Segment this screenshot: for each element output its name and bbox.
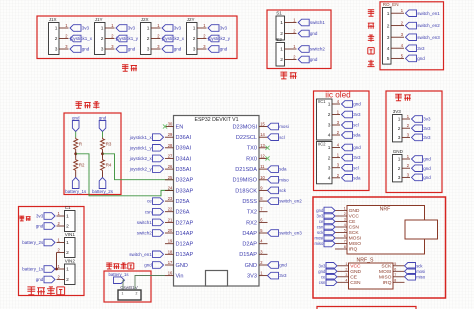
connector RO_EN [383,8,392,65]
pin 1 of 3V3 [402,118,410,120]
group box (cut off at bottom) [317,307,416,309]
junction [55,268,58,271]
svg-text:mosi: mosi [416,269,425,274]
svg-text:EN: EN [176,124,184,130]
svg-text:1: 1 [101,26,104,32]
svg-text:1: 1 [122,292,124,296]
svg-text:3V3: 3V3 [247,274,257,280]
svg-text:4: 4 [345,279,347,283]
pin 2 of C1 [57,225,65,227]
connector J2X [141,23,152,55]
svg-text:1: 1 [280,47,283,53]
no-connect X [265,156,269,160]
svg-text:1: 1 [147,26,150,32]
svg-text:joystick1_x: joystick1_x [129,135,153,140]
svg-text:gnd: gnd [99,115,107,120]
label 分压器 (voltage divider) [76,102,82,108]
svg-text:joystick2_x: joystick2_x [129,156,153,161]
svg-text:1: 1 [193,26,196,32]
pin 12 RX0 of U1 [259,157,268,159]
svg-text:D5SS: D5SS [242,199,257,205]
svg-text:R3: R3 [106,142,112,147]
svg-text:VIN2: VIN2 [65,258,76,263]
svg-text:switch_en2: switch_en2 [417,23,440,28]
pin 13 TX0 of U1 [259,147,268,149]
svg-text:battery_2s: battery_2s [22,240,44,245]
pin 3 D15AP of U1 [259,253,268,255]
pin 1 GND of NRF [335,210,347,212]
svg-text:8: 8 [344,245,346,249]
pin 5 of RO_EN [391,57,404,59]
svg-text:gnd: gnd [353,145,361,150]
pin 8 IRQ of NRF_S [393,281,405,283]
mcu module U1 ESP32 DEVKIT V1 [174,116,260,287]
svg-text:4: 4 [344,223,346,227]
pin 1 of IIC2 [332,147,340,149]
wire [102,132,104,138]
no-connect X [265,146,269,150]
svg-text:3: 3 [193,47,196,53]
svg-text:1: 1 [328,145,331,151]
svg-text:TX0: TX0 [247,146,257,152]
pin 7 TX2 of U1 [259,211,268,213]
svg-text:gnd: gnd [174,47,182,52]
group box joysticks [37,16,237,59]
svg-text:csn: csn [319,280,326,285]
pin 14 D22SCL of U1 [259,136,268,138]
svg-text:14: 14 [260,132,265,137]
svg-text:gnd: gnd [423,175,431,180]
svg-text:3v3: 3v3 [279,273,287,278]
svg-text:gnd: gnd [417,56,425,61]
svg-text:CE: CE [350,275,358,281]
pin 2 of J2Y [197,38,207,40]
pin 3 of IIC2 [332,167,340,169]
svg-text:20: 20 [168,228,173,233]
svg-text:gnd: gnd [353,102,361,107]
group box extras [386,91,442,193]
pin 29 D36AI of U1 [165,136,174,138]
pin 1 of J1X [59,27,69,29]
svg-text:NRF: NRF [380,206,391,212]
svg-text:SCK: SCK [381,264,392,270]
svg-text:CSN: CSN [349,225,360,231]
pin 1 VCC of NRF_S [337,265,349,267]
pin 5 SCK of NRF [335,232,347,234]
pin 21 D27AP of U1 [165,221,174,223]
pin 1 of RO_EN [391,12,404,14]
svg-text:1: 1 [345,262,347,266]
pin 2 GND of NRF_S [337,270,349,272]
svg-text:3v3: 3v3 [417,46,425,51]
svg-text:3: 3 [55,47,58,53]
pin 4 of RO_EN [391,47,404,49]
svg-text:1: 1 [387,11,390,17]
wire [75,172,77,178]
pin 26 D35AI of U1 [165,168,174,170]
svg-text:S1: S1 [276,10,282,15]
connector J2Y [187,23,198,55]
group box switches [267,10,331,69]
svg-text:18: 18 [168,249,173,254]
svg-text:switch_en1: switch_en1 [417,11,440,16]
svg-text:30: 30 [168,122,173,127]
pin 2 of GND [402,167,410,169]
group box voltage divider [64,113,121,195]
svg-text:scl: scl [279,135,285,140]
resistor R [74,138,78,151]
pin 1 of IIC1 [332,103,340,105]
antenna block of NRF [405,220,438,239]
svg-text:GND: GND [176,263,188,269]
wire [75,132,77,138]
pin 4 CSN of NRF [335,226,347,228]
svg-text:3: 3 [398,135,401,141]
svg-text:TX2: TX2 [247,210,257,216]
svg-text:1: 1 [344,207,346,211]
svg-text:RO_EN: RO_EN [383,2,399,7]
svg-text:2: 2 [101,36,104,42]
pin 3 of 3V3 [402,136,410,138]
svg-text:J1Y: J1Y [95,17,103,22]
svg-text:scl: scl [353,123,359,128]
pin 2 of 3V3 [402,127,410,129]
svg-text:D4AP: D4AP [242,231,257,237]
svg-text:D18SCK: D18SCK [235,188,257,194]
svg-text:5: 5 [387,56,390,62]
svg-text:VCC: VCC [349,214,360,220]
svg-text:D2AP: D2AP [242,242,257,248]
label 开关 (switch) [280,72,287,79]
svg-text:3: 3 [345,273,347,277]
svg-text:miso: miso [279,177,289,182]
connector IIC1 [317,99,333,140]
pin 1 of J2Y [197,27,207,29]
svg-text:gnd: gnd [36,224,44,229]
svg-text:3: 3 [398,175,401,181]
pin 2 of VIN1 [57,252,65,254]
pin 6 MOSI of NRF [335,237,347,239]
svg-text:gnd: gnd [310,57,318,62]
svg-text:sda: sda [279,167,287,172]
pin 18 D13AP of U1 [165,253,174,255]
svg-text:D35AI: D35AI [176,167,192,173]
svg-text:joystick1_y: joystick1_y [129,145,153,150]
label 多的 (extras) [395,94,402,101]
pin 3 of IIC1 [332,124,340,126]
connector VIN1 [65,238,76,258]
pin 2 of S1 [285,33,297,35]
svg-text:19: 19 [168,239,173,244]
pin 2 of S2 [285,59,297,61]
svg-text:IIC2: IIC2 [318,142,326,147]
svg-text:3v3: 3v3 [423,117,431,122]
svg-text:D34AI: D34AI [176,156,192,162]
group box NRF [313,197,446,298]
svg-text:2: 2 [398,166,401,172]
svg-text:3V3: 3V3 [393,109,402,114]
svg-text:1: 1 [328,102,331,108]
pin 3 CE of NRF [335,221,347,223]
junction [101,152,104,155]
pin 3 of J1X [59,48,69,50]
svg-text:SCK: SCK [349,230,360,236]
pin 4 D2AP of U1 [259,243,268,245]
connector J1Y [95,23,106,55]
pin 2 of IIC2 [332,157,340,159]
wire [102,172,104,178]
svg-text:3v3: 3v3 [423,135,431,140]
svg-text:1: 1 [55,26,58,32]
pin 30 EN of U1 [165,126,174,128]
svg-text:IRQ: IRQ [349,247,358,253]
label 电源开关 (power switch) [106,263,112,269]
connector J1X [49,23,60,55]
svg-text:D14AP: D14AP [176,231,194,237]
pin 17 GND of U1 [165,264,174,266]
svg-text:3: 3 [147,47,150,53]
pin 8 D5SS of U1 [259,200,268,202]
pin 23 D25A of U1 [165,200,174,202]
svg-text:gnd: gnd [144,263,152,268]
svg-text:RX0: RX0 [246,156,257,162]
svg-text:csn: csn [145,209,153,214]
svg-text:scl: scl [353,165,359,170]
svg-text:RX2: RX2 [246,220,257,226]
pin 8 IRQ of NRF [335,248,347,250]
svg-text:MISO: MISO [379,275,392,281]
svg-text:3v3: 3v3 [128,26,136,31]
wire switch to Vin [135,276,165,291]
pin 22 D26A of U1 [165,211,174,213]
svg-text:D27AP: D27AP [176,220,194,226]
svg-text:NRF_S: NRF_S [356,257,374,263]
connector VIN2 [65,264,76,285]
svg-text:VIN1: VIN1 [65,232,76,237]
svg-text:8: 8 [394,279,396,283]
svg-text:sda: sda [353,175,361,180]
pin 3 of RO_EN [391,36,404,38]
pin 24 D33AP of U1 [165,189,174,191]
svg-text:ce: ce [319,219,324,224]
svg-text:MOSI: MOSI [349,236,362,242]
svg-text:26: 26 [168,164,173,169]
svg-text:CE: CE [349,219,357,225]
svg-text:ESP32 DEVKIT V1: ESP32 DEVKIT V1 [194,117,238,123]
connector 3V3 [393,115,403,142]
svg-text:3v3: 3v3 [317,214,324,219]
svg-text:10: 10 [260,175,265,180]
svg-text:3v3: 3v3 [353,155,361,160]
pin 25 D32AP of U1 [165,179,174,181]
svg-text:gnd: gnd [318,269,326,274]
svg-text:D26A: D26A [176,210,190,216]
svg-text:miso: miso [314,241,324,246]
svg-text:D25A: D25A [176,199,190,205]
label 摇杆 (joystick) [122,65,128,71]
svg-text:22: 22 [168,207,173,212]
pin 1 of VIN1 [57,242,65,244]
connector S2 [276,43,285,67]
pin 2 of J1X [59,38,69,40]
svg-text:D15AP: D15AP [239,252,257,258]
svg-text:2: 2 [55,36,58,42]
svg-text:VCC: VCC [350,264,361,270]
svg-text:MISO: MISO [349,241,362,247]
resistor R4 [101,159,105,172]
svg-text:GND: GND [350,269,361,275]
svg-text:11: 11 [260,164,265,169]
svg-text:gnd: gnd [220,47,228,52]
svg-text:3: 3 [387,35,390,41]
svg-text:switch_en3: switch_en3 [279,231,302,236]
svg-text:R4: R4 [106,163,112,168]
pin 2 GND of U1 [259,264,268,266]
pin 4 of IIC2 [332,177,340,179]
pin 2 of RO_EN [391,25,404,27]
svg-text:D22SCL: D22SCL [236,135,257,141]
svg-text:C1: C1 [65,205,71,210]
svg-text:GND: GND [349,208,360,214]
svg-text:2: 2 [136,292,138,296]
svg-text:gnd: gnd [72,115,80,120]
pin 3 CE of NRF_S [337,276,349,278]
svg-text:16: 16 [168,271,173,276]
pin 3 of J1Y [105,48,115,50]
svg-text:joystick2_y: joystick2_y [129,167,153,172]
group box iic oled [314,91,370,191]
svg-text:2: 2 [66,277,69,283]
svg-text:3: 3 [101,47,104,53]
svg-text:switch_en1: switch_en1 [129,252,152,257]
svg-text:1: 1 [398,117,401,123]
wire [102,151,104,159]
pin 28 D39AI of U1 [165,147,174,149]
svg-text:CSN: CSN [350,280,361,286]
svg-text:4: 4 [328,176,331,182]
svg-text:Vin: Vin [176,274,184,280]
svg-text:gnd: gnd [128,47,136,52]
svg-text:3v3: 3v3 [353,112,361,117]
svg-text:D21SDA: D21SDA [235,167,257,173]
pin 1 of J2X [151,27,161,29]
svg-text:27: 27 [168,153,173,158]
svg-text:sda: sda [353,133,361,138]
svg-text:gnd: gnd [310,31,318,36]
group box power switch [104,271,151,302]
svg-text:GND: GND [393,149,404,154]
svg-text:gnd: gnd [279,263,287,268]
svg-text:ce: ce [321,274,326,279]
pin 1 of J1Y [105,27,115,29]
svg-text:7: 7 [344,240,346,244]
svg-text:6: 6 [344,234,346,238]
svg-text:D23MOSI: D23MOSI [232,124,257,130]
svg-text:7: 7 [394,273,396,277]
pin 2 of IIC1 [332,114,340,116]
pin 1 of C1 [57,215,65,217]
pin 20 D14AP of U1 [165,232,174,234]
pin 2 VCC of NRF [335,215,347,217]
svg-text:miso: miso [416,274,426,279]
wire battery_2s link [56,253,58,270]
pin 5 SCK of NRF_S [393,265,405,267]
svg-text:D36AI: D36AI [176,135,192,141]
svg-text:ce: ce [147,199,152,204]
svg-text:2: 2 [328,112,331,118]
connector GND [393,155,403,182]
svg-text:IRQ: IRQ [383,280,392,286]
svg-text:2: 2 [328,155,331,161]
pin 9 D18SCK of U1 [259,189,268,191]
svg-text:5: 5 [344,229,346,233]
pin 16 Vin of U1 [165,275,174,277]
svg-text:3v3: 3v3 [36,214,44,219]
svg-text:1: 1 [66,240,69,246]
svg-text:21: 21 [168,217,173,222]
svg-text:MOSI: MOSI [379,269,392,275]
svg-text:switch1: switch1 [137,220,153,225]
svg-text:2: 2 [345,268,347,272]
pin 6 MOSI of NRF_S [393,270,405,272]
svg-text:2: 2 [147,36,150,42]
resistor R3 [101,138,105,151]
wire divider2 to D32AP [103,154,174,180]
pin 7 MISO of NRF_S [393,276,405,278]
pin 1 of GND [402,158,410,160]
svg-text:2: 2 [193,36,196,42]
connector IIC2 [317,142,333,184]
label 电池 (battery) [19,216,24,221]
pin 5 D4AP of U1 [259,232,268,234]
pin 2 of J1Y [105,38,115,40]
pin 10 D19MISO of U1 [259,179,268,181]
svg-text:sck: sck [279,188,287,193]
svg-text:GND: GND [245,263,257,269]
no-connect X [163,124,167,128]
svg-text:23: 23 [168,196,173,201]
svg-text:6: 6 [394,268,396,272]
wire [75,151,77,159]
label 旋转编码器 (rotary encoder) [368,10,374,16]
svg-text:28: 28 [168,143,173,148]
svg-text:2: 2 [66,224,69,230]
pin 19 D12AP of U1 [165,243,174,245]
svg-text:S2: S2 [276,37,282,42]
svg-text:24: 24 [168,185,173,190]
svg-text:3: 3 [328,123,331,129]
svg-text:IIC1: IIC1 [318,99,326,104]
svg-text:R: R [79,142,82,147]
svg-text:D12AP: D12AP [176,242,194,248]
connector C1 [65,211,76,232]
resistor R2 [74,159,78,172]
svg-text:gnd: gnd [316,208,324,213]
wire divider1 to D33AP [76,154,174,196]
pin 11 D21SDA of U1 [259,168,268,170]
pin 3 of J2X [151,48,161,50]
connector S1 [276,16,285,40]
svg-text:5: 5 [394,262,396,266]
pin 15 D23MOSI of U1 [259,126,268,128]
svg-text:29: 29 [168,132,173,137]
svg-text:CswB1V: CswB1V [120,285,139,290]
svg-text:D33AP: D33AP [176,188,194,194]
svg-text:1: 1 [398,157,401,163]
svg-text:mosi: mosi [314,236,323,241]
pin 7 MISO of NRF [335,243,347,245]
svg-text:3: 3 [344,218,346,222]
